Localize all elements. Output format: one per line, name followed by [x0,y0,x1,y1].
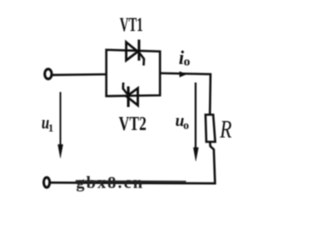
svg-text:o: o [183,120,189,132]
svg-text:VT2: VT2 [119,113,147,134]
svg-text:1: 1 [48,124,53,135]
svg-text:o: o [184,54,191,69]
svg-text:VT1: VT1 [120,13,143,36]
svg-text:R: R [219,115,232,143]
svg-text:gbx8.cn: gbx8.cn [76,173,144,192]
